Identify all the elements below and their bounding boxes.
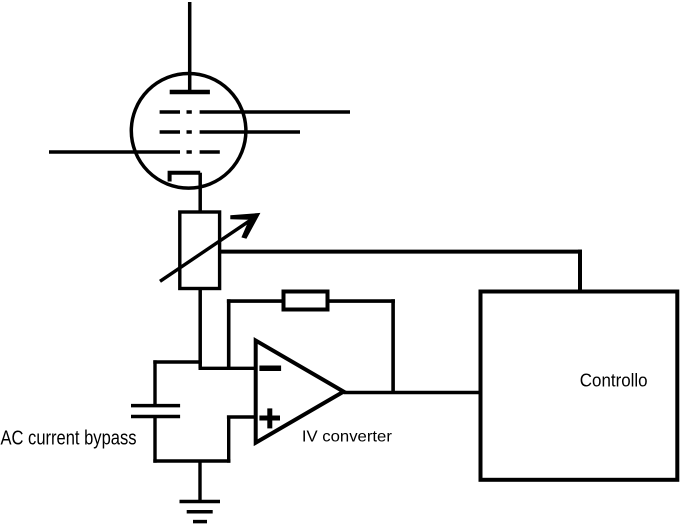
wire variable resistor to controllo horizontal xyxy=(220,250,582,254)
op-amp U1 triangle xyxy=(256,341,344,443)
wire resistor bottom lead xyxy=(198,289,202,369)
svg-text:AC current bypass: AC current bypass xyxy=(1,427,137,450)
wire anode lead xyxy=(188,2,192,90)
wire bottom horizontal xyxy=(153,459,230,462)
capacitor C1 bottom plate xyxy=(131,415,180,419)
svg-text:Controllo: Controllo xyxy=(580,370,648,391)
variable resistor R1 body xyxy=(180,212,220,289)
vacuum tube anode plate xyxy=(170,90,210,95)
op-amp plus input symbol xyxy=(259,408,280,428)
wire plus branch vertical xyxy=(227,417,230,463)
vacuum tube cathode xyxy=(170,173,201,182)
feedback resistor R2 body xyxy=(284,292,328,310)
wire feedback right vertical xyxy=(391,299,395,392)
wire inverting input xyxy=(199,367,256,370)
wire capacitor top horizontal xyxy=(153,360,202,363)
variable resistor R1 arrow xyxy=(160,213,260,281)
wire capacitor left vertical upper xyxy=(153,360,156,405)
capacitor C1 top plate xyxy=(131,404,180,408)
ground symbol xyxy=(180,502,221,522)
wire feedback right horizontal xyxy=(328,299,395,303)
vacuum tube grid 1 xyxy=(160,110,350,114)
wire noninverting input xyxy=(227,415,256,418)
wire ground lead xyxy=(198,461,201,500)
wire feedback left vertical xyxy=(227,299,231,368)
wire feedback left horizontal xyxy=(227,299,282,303)
vacuum tube grid 3 xyxy=(49,150,220,154)
vacuum tube V1 envelope xyxy=(131,74,246,189)
svg-text:IV converter: IV converter xyxy=(302,429,393,446)
controllo box xyxy=(481,292,678,480)
wire capacitor left vertical lower xyxy=(153,417,156,463)
op-amp minus input symbol xyxy=(259,365,281,371)
vacuum tube grid 2 xyxy=(160,130,300,134)
wire op-amp output xyxy=(344,391,481,395)
wire cathode to variable resistor xyxy=(198,173,202,211)
wire variable resistor to controllo vertical xyxy=(578,250,582,292)
